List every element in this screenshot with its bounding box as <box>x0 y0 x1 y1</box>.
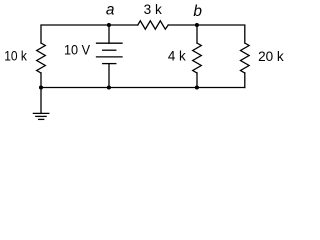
wire right rail bottom <box>244 73 246 88</box>
battery V1 plate short <box>103 49 116 51</box>
node b junction dot <box>195 23 199 27</box>
4k bottom junction dot <box>195 85 199 89</box>
battery bottom junction dot <box>107 85 111 89</box>
wire battery top lead <box>108 25 110 43</box>
ground lead <box>40 88 42 114</box>
resistor 4 k middle vertical <box>193 43 202 73</box>
wire top-left segment (left rail top to 3k) <box>41 25 138 43</box>
resistor R 3k horizontal <box>138 21 168 29</box>
wire battery bottom lead <box>108 64 110 88</box>
ground bar 3 <box>39 118 44 120</box>
battery V1 10V plate long top <box>97 42 123 44</box>
ground bar 1 <box>33 112 48 114</box>
wire bottom rail <box>41 87 245 89</box>
battery V1 plate long <box>97 56 123 58</box>
svg-text:10 k: 10 k <box>4 49 27 64</box>
svg-text:3 k: 3 k <box>144 2 162 17</box>
wire 4k top lead <box>196 25 198 43</box>
resistor 10 k left vertical <box>37 43 46 73</box>
svg-text:20 k: 20 k <box>258 49 284 64</box>
wire top-right segment (3k to right rail top) <box>168 25 245 43</box>
resistor 20 k right vertical <box>241 43 250 73</box>
ground bar 2 <box>36 115 46 117</box>
svg-text:4 k: 4 k <box>168 49 186 64</box>
svg-text:10 V: 10 V <box>64 43 90 58</box>
svg-text:a: a <box>106 1 115 18</box>
ground junction dot <box>39 85 43 89</box>
svg-text:b: b <box>193 3 202 20</box>
wire left rail bottom <box>40 73 42 88</box>
node a junction dot <box>107 23 111 27</box>
wire 4k bottom lead <box>196 73 198 88</box>
battery V1 plate short bottom <box>103 63 116 65</box>
